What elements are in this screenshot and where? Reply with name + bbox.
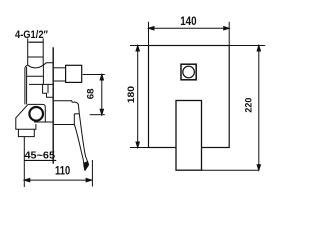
svg-text:110: 110 xyxy=(55,164,70,178)
svg-text:4-G1/2″: 4-G1/2″ xyxy=(15,29,49,41)
svg-text:180: 180 xyxy=(126,86,136,103)
svg-text:68: 68 xyxy=(86,88,96,99)
svg-text:45~65: 45~65 xyxy=(25,149,56,161)
svg-text:220: 220 xyxy=(244,98,254,113)
svg-text:140: 140 xyxy=(180,14,197,28)
